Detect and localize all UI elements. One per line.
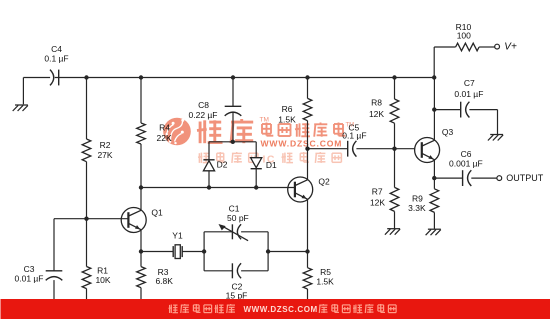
capacitor C5 bbox=[342, 122, 366, 156]
svg-text:R5: R5 bbox=[320, 267, 331, 277]
wire C8 top bbox=[232, 78, 234, 107]
svg-text:R2: R2 bbox=[100, 140, 111, 150]
svg-text:0.001 µF: 0.001 µF bbox=[449, 158, 483, 168]
ground top-left bbox=[13, 105, 28, 111]
svg-text:50 pF: 50 pF bbox=[227, 213, 249, 223]
svg-text:Q2: Q2 bbox=[318, 177, 330, 187]
svg-text:27K: 27K bbox=[97, 150, 112, 160]
transistor Q3 bbox=[415, 127, 454, 163]
svg-text:0.01 µF: 0.01 µF bbox=[454, 89, 483, 99]
svg-text:D1: D1 bbox=[266, 160, 277, 170]
capacitor C3 bbox=[15, 264, 63, 284]
svg-text:R9: R9 bbox=[412, 193, 423, 203]
capacitor C7 bbox=[454, 78, 483, 117]
svg-text:100: 100 bbox=[457, 30, 471, 40]
node rail-R6 bbox=[305, 75, 309, 79]
resistor R5 bbox=[303, 267, 334, 289]
svg-text:OUTPUT: OUTPUT bbox=[506, 173, 544, 183]
wire R4-junction bbox=[140, 144, 142, 188]
resistor R3 bbox=[137, 267, 174, 288]
wire C5 right bbox=[356, 148, 414, 150]
wire C8 bottom bbox=[232, 112, 234, 142]
wire C7 left bbox=[434, 109, 460, 111]
node R6-C5 bbox=[305, 147, 309, 151]
wire Q1 collector bbox=[140, 188, 142, 211]
node box left bbox=[202, 249, 206, 253]
ground R5 bbox=[298, 310, 313, 316]
resistor R4 bbox=[137, 123, 172, 144]
diode D2 bbox=[203, 160, 227, 171]
ground R3 bbox=[132, 309, 147, 315]
crystal Y1 bbox=[172, 231, 183, 259]
svg-text:1.5K: 1.5K bbox=[278, 114, 296, 124]
node rail-R8 bbox=[392, 75, 396, 79]
resistor R2 bbox=[82, 139, 113, 162]
wire R6 bottom bbox=[307, 121, 309, 149]
red banner www.dzsc.com bbox=[1, 299, 550, 319]
wire Q3 emitter bbox=[433, 160, 435, 178]
diode D1 bbox=[251, 158, 277, 170]
node C8-diode rail bbox=[231, 140, 235, 144]
svg-text:WWW.DZSC.COM: WWW.DZSC.COM bbox=[244, 305, 318, 314]
node rail-C8 bbox=[231, 75, 235, 79]
wire C3 drop bbox=[53, 219, 55, 271]
wire R8 top bbox=[394, 78, 396, 100]
svg-text:1.5K: 1.5K bbox=[316, 277, 334, 287]
watermark dzsc logo and text bbox=[163, 117, 354, 166]
wire box top-right bbox=[241, 231, 268, 233]
svg-text:Q1: Q1 bbox=[151, 207, 163, 217]
node Q2 emitter-R5 bbox=[305, 249, 309, 253]
wire left drop to ground bbox=[22, 78, 24, 105]
svg-text:V+: V+ bbox=[504, 42, 517, 53]
wire R1 bottom bbox=[86, 289, 88, 310]
wire R4 top bbox=[140, 78, 142, 124]
capacitor C1 variable bbox=[219, 204, 249, 241]
wire R9 bottom bbox=[433, 212, 435, 229]
wire top-left segment bbox=[23, 77, 50, 79]
transistor Q2 bbox=[288, 177, 330, 203]
wire R5 bottom bbox=[307, 289, 309, 310]
node D2 bottom bbox=[207, 185, 211, 189]
wire Q3 collector upper bbox=[433, 78, 435, 110]
node C7 junction bbox=[432, 107, 436, 111]
svg-text:12K: 12K bbox=[370, 198, 385, 208]
svg-text:TM: TM bbox=[260, 117, 269, 124]
wire R2 top bbox=[86, 78, 88, 140]
svg-text:R6: R6 bbox=[282, 104, 293, 114]
svg-text:22K: 22K bbox=[157, 133, 172, 143]
resistor R1 bbox=[82, 266, 111, 289]
terminal V+ bbox=[495, 42, 517, 53]
wire R6 top bbox=[307, 78, 309, 99]
svg-text:R4: R4 bbox=[159, 123, 170, 133]
wire C5 left bbox=[308, 148, 348, 150]
svg-text:C8: C8 bbox=[198, 100, 209, 110]
node rail-R2 bbox=[84, 75, 88, 79]
svg-text:3.3K: 3.3K bbox=[408, 203, 426, 213]
wire Q2 emitter bbox=[307, 200, 309, 252]
node emitter-Y1 bbox=[139, 249, 143, 253]
ground C7 bbox=[488, 135, 503, 141]
wire D2 bottom bbox=[208, 171, 210, 188]
ground R1 bbox=[78, 309, 93, 315]
svg-text:12K: 12K bbox=[369, 109, 384, 119]
wire R3 bottom bbox=[140, 288, 142, 310]
wire R10 left bbox=[434, 46, 455, 48]
capacitor C4 bbox=[44, 44, 68, 85]
svg-text:0.22 µF: 0.22 µF bbox=[189, 110, 218, 120]
svg-text:D2: D2 bbox=[217, 160, 228, 170]
wire base rail bbox=[54, 218, 128, 220]
wire base rail Q2 bbox=[141, 187, 295, 189]
wire box bottom-right bbox=[241, 270, 268, 272]
wire box right side bbox=[267, 232, 269, 271]
wire R9 top bbox=[433, 178, 435, 189]
wire box top-left bbox=[204, 231, 232, 233]
node rail-R4 bbox=[139, 75, 143, 79]
ground C3 bbox=[45, 309, 60, 315]
resistor R10 bbox=[456, 22, 480, 51]
wire R8 bottom bbox=[394, 123, 396, 149]
svg-text:10K: 10K bbox=[95, 275, 110, 285]
wire Y1 right bbox=[182, 251, 204, 253]
svg-text:6.8K: 6.8K bbox=[155, 276, 173, 286]
wire C6 left bbox=[434, 177, 462, 179]
node box right bbox=[266, 249, 270, 253]
wire R2-R1 bbox=[86, 162, 88, 267]
capacitor C6 bbox=[449, 149, 483, 186]
wire R7 bottom bbox=[394, 211, 396, 228]
svg-text:Y1: Y1 bbox=[172, 231, 183, 241]
wire C6 right bbox=[471, 177, 497, 179]
wire C7 ground drop bbox=[497, 110, 499, 134]
svg-text:C3: C3 bbox=[24, 264, 35, 274]
node R4 bottom junction bbox=[139, 185, 143, 189]
node rail-corner bbox=[432, 75, 436, 79]
svg-text:R8: R8 bbox=[371, 98, 382, 108]
resistor R6 bbox=[278, 98, 312, 124]
wire D1 top bbox=[255, 142, 257, 158]
node C6-R9 junction bbox=[432, 176, 436, 180]
wire R3 top bbox=[140, 252, 142, 267]
svg-text:R7: R7 bbox=[372, 187, 383, 197]
resistor R7 bbox=[370, 187, 399, 212]
svg-text:WWW.DZSC.COM: WWW.DZSC.COM bbox=[261, 139, 343, 149]
terminal OUTPUT bbox=[497, 173, 544, 183]
transistor Q1 bbox=[121, 207, 163, 232]
wire Y1 left bbox=[141, 251, 173, 253]
node D1 bottom bbox=[254, 185, 258, 189]
wire Q2 collector bbox=[307, 149, 309, 180]
wire box right stub bbox=[268, 251, 307, 253]
svg-text:0.1 µF: 0.1 µF bbox=[44, 53, 68, 63]
svg-text:C7: C7 bbox=[464, 78, 475, 88]
wire box left side bbox=[203, 232, 205, 271]
ground R7 bbox=[385, 229, 400, 235]
wire R10 right bbox=[479, 46, 495, 48]
wire box bottom-left bbox=[204, 270, 232, 272]
wire D1 bottom bbox=[255, 169, 257, 188]
wire R5 top bbox=[307, 252, 309, 268]
capacitor C2 bbox=[226, 263, 248, 300]
wire C3 bottom bbox=[53, 280, 55, 309]
node C5-R8 bbox=[392, 147, 396, 151]
svg-text:0.01 µF: 0.01 µF bbox=[15, 273, 44, 283]
resistor R8 bbox=[369, 98, 399, 124]
wire Q1 emitter bbox=[140, 230, 142, 252]
capacitor C8 bbox=[189, 100, 242, 120]
svg-text:0.1 µF: 0.1 µF bbox=[342, 130, 366, 140]
wire diode top rail bbox=[209, 141, 256, 143]
svg-text:Q3: Q3 bbox=[442, 127, 454, 137]
ground R9 bbox=[426, 229, 441, 235]
wire R10 riser bbox=[433, 47, 435, 78]
wire top supply rail y77 bbox=[55, 77, 434, 79]
wire C7 right bbox=[469, 109, 497, 111]
wire D2 top bbox=[208, 142, 210, 160]
wire R7 top bbox=[394, 149, 396, 188]
wire Q3 collector bbox=[433, 110, 435, 140]
resistor R9 bbox=[408, 189, 439, 213]
node base junction bbox=[84, 217, 88, 221]
